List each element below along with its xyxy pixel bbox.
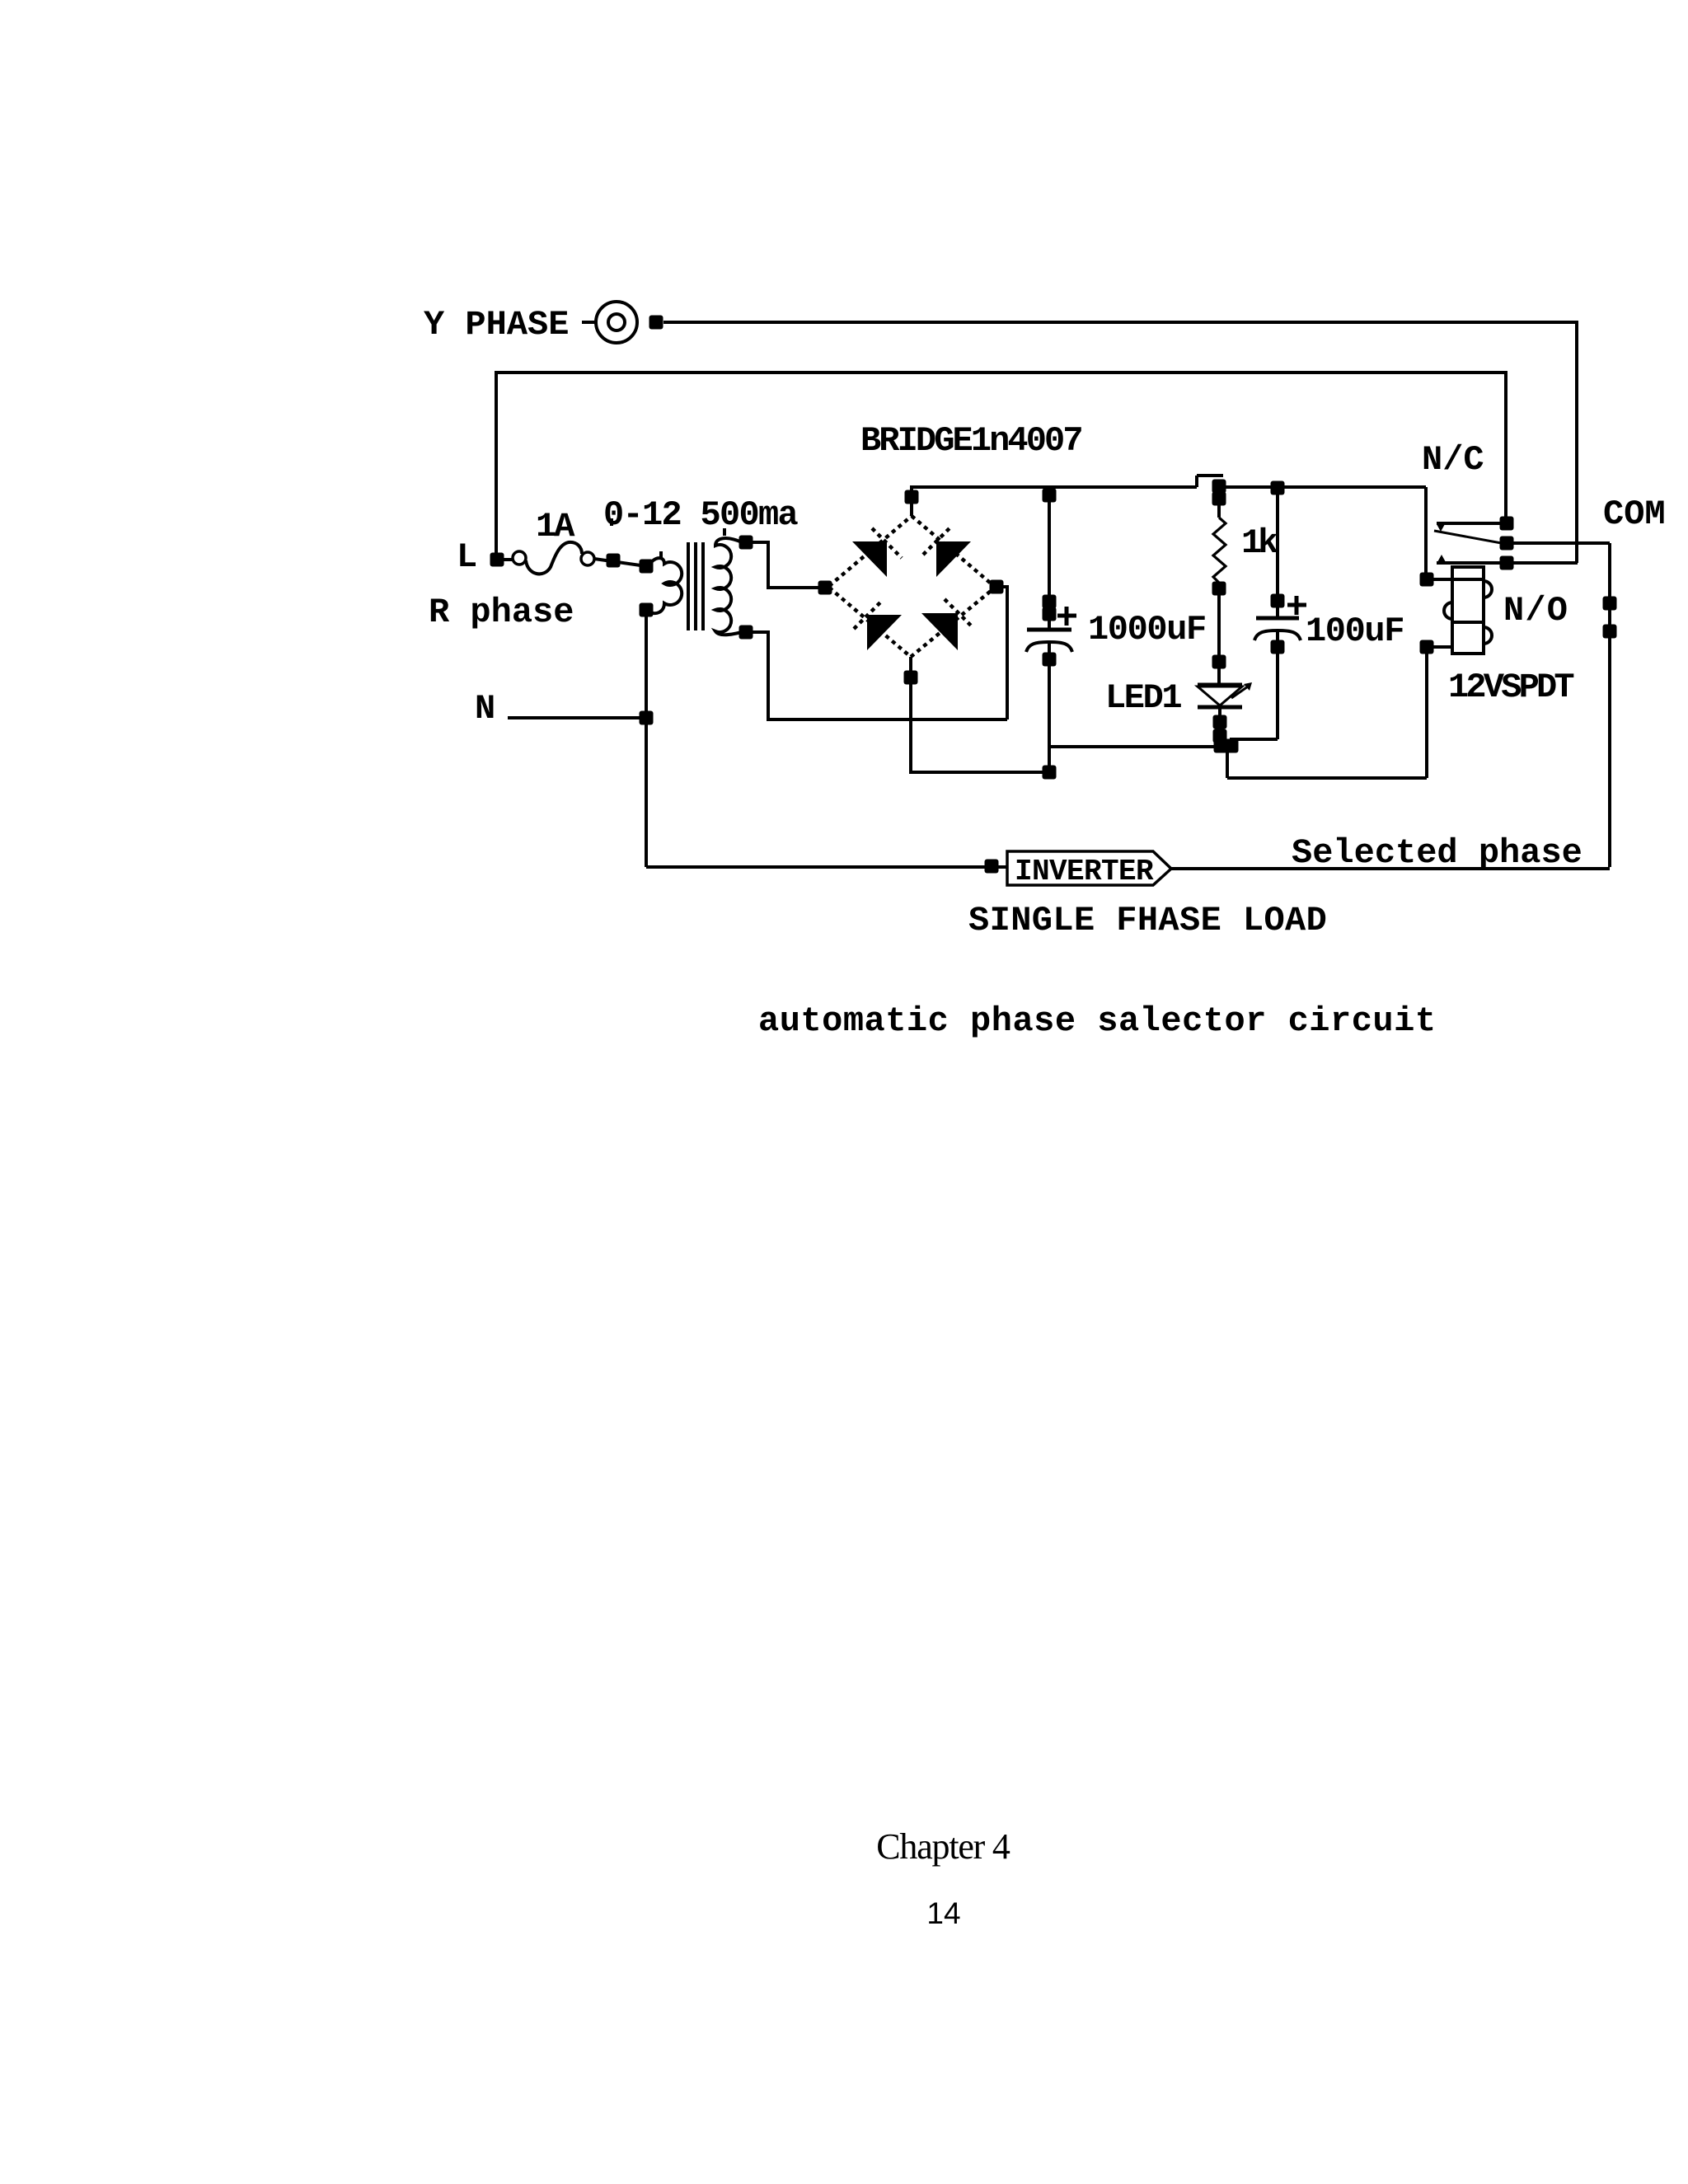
svg-text:LED1: LED1 bbox=[1105, 678, 1181, 718]
svg-text:1000uF: 1000uF bbox=[1088, 610, 1206, 649]
svg-text:N/O: N/O bbox=[1503, 591, 1568, 630]
svg-text:automatic phase salector circu: automatic phase salector circuit bbox=[758, 1001, 1437, 1041]
svg-text:N/C: N/C bbox=[1422, 440, 1484, 480]
svg-text:SINGLE FHASE LOAD: SINGLE FHASE LOAD bbox=[968, 901, 1327, 940]
svg-text:INVERTER: INVERTER bbox=[1015, 855, 1154, 888]
svg-text:100uF: 100uF bbox=[1306, 612, 1404, 651]
svg-text:1A: 1A bbox=[536, 507, 575, 546]
svg-text:0-12 500ma: 0-12 500ma bbox=[603, 495, 799, 535]
svg-text:COM: COM bbox=[1603, 494, 1666, 534]
svg-text:1k: 1k bbox=[1241, 523, 1278, 563]
svg-text:L: L bbox=[457, 537, 477, 577]
svg-text:R phase: R phase bbox=[429, 593, 574, 632]
svg-text:Y PHASE: Y PHASE bbox=[424, 305, 569, 344]
svg-text:12VSPDT: 12VSPDT bbox=[1448, 668, 1573, 707]
svg-text:Chapter 4: Chapter 4 bbox=[876, 1826, 1010, 1867]
svg-text:Selected phase: Selected phase bbox=[1292, 833, 1582, 873]
svg-text:BRIDGE1n4007: BRIDGE1n4007 bbox=[860, 421, 1081, 461]
svg-text:14: 14 bbox=[926, 1896, 960, 1930]
svg-text:N: N bbox=[475, 689, 495, 729]
